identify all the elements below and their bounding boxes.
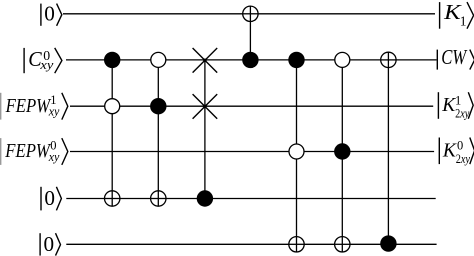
- svg-text:FEPW: FEPW: [5, 95, 52, 117]
- svg-text:0: 0: [44, 232, 55, 256]
- svg-text:2xy: 2xy: [455, 107, 470, 121]
- wire q1 (|0> to |K1>): [63, 13, 435, 15]
- filled control (col2, q3): [150, 98, 166, 114]
- wire q4 (|FEPW0xy> to |K0_2xy>): [70, 151, 434, 153]
- ket |K0_2xy> label q4 right: [439, 138, 474, 167]
- vertical wire column 2: [157, 60, 159, 206]
- vertical wire column 5: [296, 60, 298, 252]
- open control (col1, q3): [105, 99, 120, 114]
- svg-text:1: 1: [460, 14, 467, 29]
- ket |FEPW1xy> label q3: [1, 93, 68, 120]
- wire q3 (|FEPW1xy> to |K1_2xy>): [70, 105, 433, 107]
- CNOT target (col5, q6): [289, 237, 304, 252]
- svg-text:xy: xy: [39, 58, 54, 72]
- ket |FEPW0xy> label q4: [1, 138, 68, 165]
- ket |K1_2xy> label q3 right: [438, 92, 473, 120]
- ket |0> label q6: [40, 232, 60, 256]
- vertical wire column 7: [387, 52, 389, 243]
- filled control (col4, q2): [242, 52, 258, 68]
- wire q5 (|0> ancilla): [66, 198, 435, 200]
- filled control (col1, q2): [104, 52, 120, 68]
- ket |0> label q1: [41, 2, 62, 26]
- open control (col2, q2): [151, 52, 166, 67]
- svg-text:0: 0: [457, 139, 463, 153]
- CNOT target (col6, q6): [335, 237, 350, 252]
- filled control (col6, q4): [334, 143, 350, 159]
- svg-text:CW: CW: [441, 45, 468, 69]
- vertical wire column 1: [111, 60, 113, 206]
- ket |K1> label q1 right: [440, 0, 474, 29]
- open control (col6, q2): [335, 52, 350, 67]
- open control (col5, q4): [289, 144, 304, 159]
- filled control (col3, q5): [197, 190, 213, 206]
- svg-text:0: 0: [44, 186, 55, 210]
- svg-text:2xy: 2xy: [456, 152, 471, 166]
- wire q2 (|C0xy> to |CW>): [66, 59, 437, 61]
- filled control (col5, q2): [288, 52, 304, 68]
- ket |CW> label q2 right: [437, 45, 474, 70]
- svg-text:xy: xy: [48, 105, 60, 119]
- CNOT target (col2, q5): [151, 191, 166, 206]
- swap cross (col3, q2): [193, 48, 218, 73]
- vertical wire column 6: [341, 60, 343, 252]
- CNOT target (col7, q2): [381, 52, 396, 67]
- CNOT target (col4, q1): [243, 6, 258, 21]
- svg-text:1: 1: [455, 93, 461, 107]
- svg-text:xy: xy: [48, 150, 60, 164]
- wire q6 (|0> ancilla): [66, 243, 436, 245]
- ket |C0xy> label q2: [24, 47, 62, 73]
- svg-text:0: 0: [44, 2, 55, 26]
- CNOT target (col1, q5): [105, 191, 120, 206]
- vertical wire column 4: [249, 6, 251, 60]
- ket |0> label q5: [41, 186, 61, 210]
- filled control (col7, q6): [380, 235, 396, 251]
- vertical wire column 3 (controlled swap): [204, 60, 206, 198]
- svg-text:FEPW: FEPW: [4, 140, 51, 162]
- swap cross (col3, q3): [193, 94, 218, 119]
